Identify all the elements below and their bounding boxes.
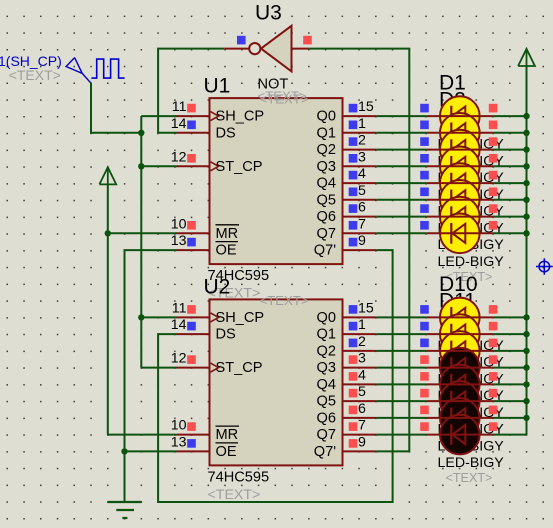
- svg-text:<TEXT>: <TEXT>: [9, 67, 61, 83]
- svg-text:2: 2: [358, 133, 366, 149]
- svg-text:10: 10: [171, 418, 187, 434]
- svg-text:9: 9: [358, 233, 366, 249]
- svg-text:3: 3: [358, 351, 366, 367]
- svg-text:LED-BIGY: LED-BIGY: [438, 455, 505, 471]
- svg-text:2: 2: [358, 334, 366, 350]
- svg-text:7: 7: [358, 216, 366, 232]
- svg-text:6: 6: [358, 200, 366, 216]
- svg-text:<TEXT>: <TEXT>: [208, 487, 261, 503]
- svg-text:OE: OE: [216, 243, 237, 259]
- svg-text:Q1: Q1: [317, 125, 336, 141]
- svg-text:12: 12: [171, 149, 187, 165]
- svg-text:Q3: Q3: [317, 360, 336, 376]
- svg-text:SH_CP: SH_CP: [216, 109, 265, 125]
- svg-text:11: 11: [172, 300, 187, 316]
- svg-text:1: 1: [358, 317, 366, 333]
- svg-text:Q3: Q3: [317, 159, 336, 175]
- svg-text:Q7': Q7': [314, 243, 336, 259]
- svg-text:Q2: Q2: [317, 142, 336, 158]
- svg-text:Q4: Q4: [317, 176, 336, 192]
- svg-text:ST_CP: ST_CP: [216, 159, 263, 175]
- svg-text:14: 14: [171, 116, 187, 132]
- svg-text:4: 4: [358, 367, 366, 383]
- svg-text:Q1: Q1: [317, 327, 336, 343]
- svg-text:6: 6: [358, 401, 366, 417]
- svg-text:3: 3: [358, 149, 366, 165]
- svg-text:<TEXT>: <TEXT>: [260, 293, 309, 308]
- svg-text:MR: MR: [216, 427, 239, 443]
- svg-text:U1: U1: [204, 75, 231, 98]
- svg-text:<TEXT>: <TEXT>: [446, 471, 493, 485]
- svg-text:11: 11: [172, 99, 187, 115]
- svg-text:SH_CP: SH_CP: [216, 310, 265, 326]
- svg-text:4: 4: [358, 166, 366, 182]
- svg-text:1: 1: [358, 116, 366, 132]
- svg-text:7: 7: [358, 418, 366, 434]
- svg-text:Q7: Q7: [317, 226, 336, 242]
- svg-text:74HC595: 74HC595: [208, 469, 270, 485]
- svg-text:13: 13: [171, 434, 187, 450]
- svg-text:MR: MR: [216, 226, 239, 242]
- svg-text:U3: U3: [255, 2, 282, 25]
- svg-text:12: 12: [171, 351, 187, 367]
- svg-text:DS: DS: [216, 327, 237, 343]
- svg-text:<TEXT>: <TEXT>: [258, 89, 307, 104]
- svg-text:5: 5: [358, 183, 366, 199]
- svg-text:Q7': Q7': [314, 444, 336, 460]
- svg-text:15: 15: [358, 300, 374, 316]
- svg-text:14: 14: [171, 317, 187, 333]
- svg-text:Q0: Q0: [317, 310, 336, 326]
- svg-text:OE: OE: [216, 444, 237, 460]
- svg-text:LED-BIGY: LED-BIGY: [438, 254, 505, 270]
- svg-text:Q7: Q7: [317, 427, 336, 443]
- svg-text:13: 13: [171, 233, 187, 249]
- svg-text:9: 9: [358, 434, 366, 450]
- svg-text:Q6: Q6: [317, 410, 336, 426]
- svg-text:Q5: Q5: [317, 394, 336, 410]
- svg-text:DS: DS: [216, 125, 237, 141]
- svg-text:Q2: Q2: [317, 343, 336, 359]
- svg-text:U2: U2: [204, 276, 231, 299]
- svg-text:Q5: Q5: [317, 192, 336, 208]
- svg-text:Q4: Q4: [317, 377, 336, 393]
- svg-text:5: 5: [358, 384, 366, 400]
- svg-text:ST_CP: ST_CP: [216, 360, 263, 376]
- svg-text:15: 15: [358, 99, 374, 115]
- svg-text:10: 10: [171, 216, 187, 232]
- svg-text:Q6: Q6: [317, 209, 336, 225]
- svg-text:Q0: Q0: [317, 109, 336, 125]
